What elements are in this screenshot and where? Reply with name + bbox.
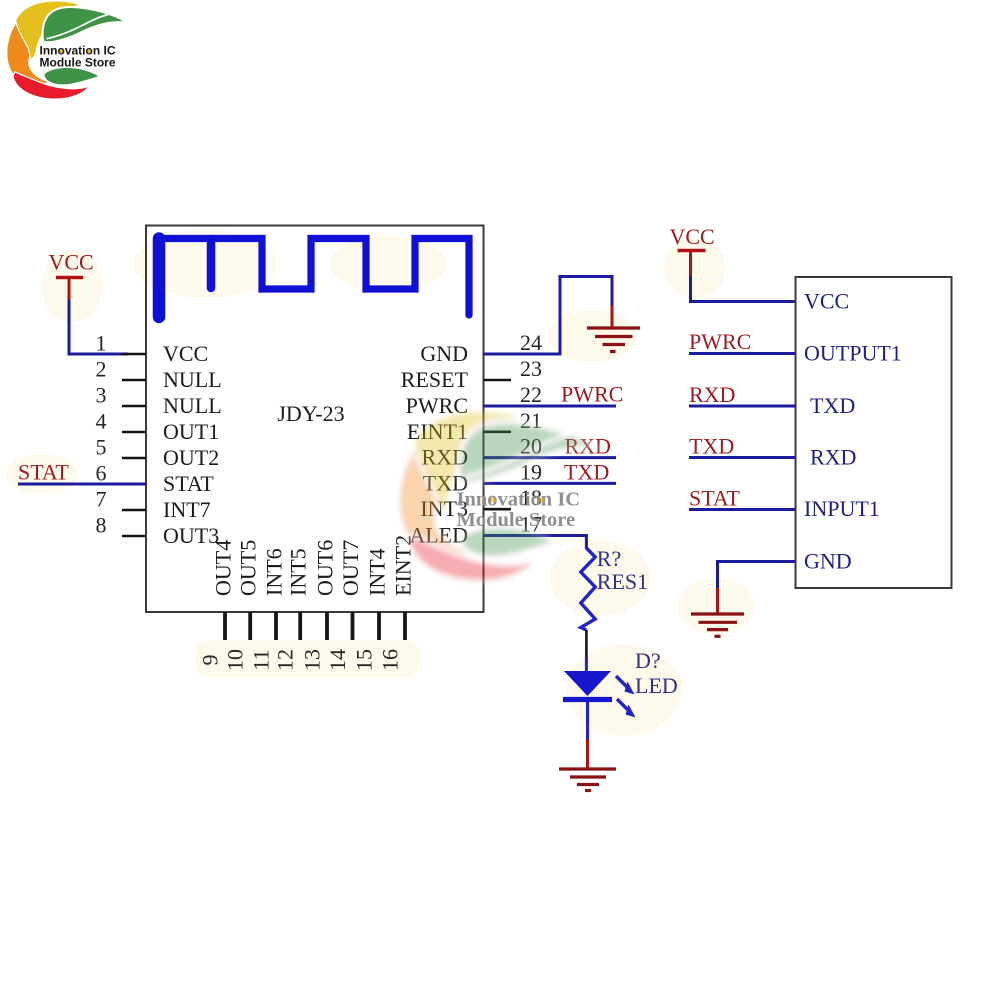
- svg-text:OUT4: OUT4: [211, 540, 236, 596]
- svg-text:TXD: TXD: [810, 393, 855, 418]
- wire pin 17 to resistor: [484, 536, 587, 550]
- svg-text:STAT: STAT: [18, 460, 69, 485]
- LED arrow 1: [616, 676, 635, 695]
- pin 10 OUT5: [223, 540, 261, 671]
- pin 2 NULL: [96, 357, 222, 393]
- svg-text:RXD: RXD: [689, 382, 735, 407]
- antenna (blue meander) main trace: [159, 239, 469, 316]
- pin 13 OUT6: [300, 540, 338, 671]
- wire PWRC to OUTPUT1: [689, 352, 796, 355]
- svg-text:VCC: VCC: [49, 250, 94, 275]
- wire VCC to U2 VCC: [691, 276, 796, 302]
- wire pin 22 PWRC: [484, 405, 617, 408]
- svg-text:NULL: NULL: [163, 393, 222, 418]
- antenna (blue meander) feed bar: [153, 239, 166, 318]
- svg-text:INT7: INT7: [163, 497, 211, 522]
- pin 14 OUT7: [325, 540, 363, 671]
- svg-text:RESET: RESET: [401, 367, 469, 392]
- svg-text:JDY-23: JDY-23: [277, 401, 344, 426]
- pin 16 EINT2: [378, 535, 416, 671]
- connector U2 body: [796, 277, 952, 588]
- svg-text:RXD: RXD: [810, 445, 856, 470]
- wire resistor to LED: [585, 630, 588, 659]
- svg-text:24: 24: [520, 330, 542, 355]
- svg-text:2: 2: [96, 357, 107, 382]
- svg-text:1: 1: [96, 331, 107, 356]
- pin 6 STAT: [96, 461, 215, 497]
- svg-text:15: 15: [352, 649, 377, 671]
- wire STAT to INPUT1: [689, 508, 796, 511]
- pin 24 GND: [420, 330, 542, 366]
- pin 4 OUT1: [96, 409, 220, 445]
- wire LED to ground: [586, 702, 589, 740]
- resistor R1 zigzag: [581, 548, 595, 630]
- svg-text:OUTPUT1: OUTPUT1: [804, 341, 902, 366]
- pin 5 OUT2: [96, 435, 220, 471]
- svg-text:TXD: TXD: [564, 459, 609, 484]
- svg-text:VCC: VCC: [163, 341, 208, 366]
- pin 19 TXD: [423, 459, 542, 495]
- svg-text:OUT1: OUT1: [163, 419, 219, 444]
- svg-text:23: 23: [520, 356, 542, 381]
- wire STAT to pin 6: [18, 483, 146, 486]
- pin 3 NULL: [96, 383, 222, 419]
- pin 1 VCC: [96, 331, 209, 367]
- pin 9 OUT4: [198, 540, 236, 666]
- svg-text:Module Store: Module Store: [457, 509, 576, 531]
- svg-text:OUT5: OUT5: [236, 540, 261, 596]
- pin 22 PWRC: [406, 382, 542, 418]
- LED arrow 2: [617, 699, 636, 718]
- svg-text:9: 9: [198, 655, 223, 666]
- svg-text:D?: D?: [635, 648, 661, 673]
- watermark logo (center, translucent): [398, 412, 598, 582]
- svg-text:14: 14: [325, 649, 350, 671]
- svg-text:RES1: RES1: [597, 569, 648, 594]
- wire U2 GND to ground: [718, 562, 796, 590]
- svg-text:TXD: TXD: [689, 433, 734, 458]
- svg-text:12: 12: [273, 649, 298, 671]
- svg-text:INT5: INT5: [286, 548, 311, 596]
- pin 11 INT6: [249, 548, 287, 670]
- svg-text:4: 4: [96, 409, 107, 434]
- pin 18 INT3: [420, 485, 542, 521]
- svg-text:VCC: VCC: [804, 289, 849, 314]
- svg-text:STAT: STAT: [163, 471, 214, 496]
- LED cathode bar: [563, 697, 612, 702]
- svg-text:OUT6: OUT6: [313, 540, 338, 596]
- svg-text:16: 16: [378, 649, 403, 671]
- wire RXD to TXD: [689, 405, 796, 408]
- pin 17 ALED: [409, 512, 542, 548]
- IC U1 JDY-23 body: [146, 226, 484, 613]
- pin 15 INT4: [352, 548, 390, 671]
- pin 23 RESET: [401, 356, 542, 392]
- svg-text:LED: LED: [635, 673, 678, 698]
- svg-text:22: 22: [520, 382, 542, 407]
- pin 8 OUT3: [96, 513, 220, 549]
- pin 7 INT7: [96, 487, 211, 523]
- svg-text:INT4: INT4: [365, 548, 390, 596]
- ground symbol (top): [587, 328, 640, 352]
- svg-text:7: 7: [96, 487, 107, 512]
- LED D1 triangle: [564, 671, 611, 696]
- svg-text:R?: R?: [597, 546, 621, 571]
- pin 21 EINT1: [407, 408, 542, 444]
- svg-text:STAT: STAT: [689, 485, 740, 510]
- wire pin 20 RXD: [484, 456, 617, 459]
- svg-text:OUT2: OUT2: [163, 445, 219, 470]
- VCC power symbol (left): [49, 250, 94, 302]
- svg-text:GND: GND: [420, 341, 468, 366]
- svg-text:10: 10: [223, 649, 248, 671]
- svg-text:INT6: INT6: [262, 548, 287, 596]
- ground symbol (right block): [691, 614, 744, 636]
- wire VCC to pin 1: [69, 300, 128, 354]
- svg-text:GND: GND: [804, 549, 852, 574]
- svg-text:13: 13: [300, 649, 325, 671]
- svg-text:PWRC: PWRC: [561, 382, 623, 407]
- svg-text:11: 11: [249, 649, 274, 670]
- svg-text:OUT7: OUT7: [338, 540, 363, 596]
- svg-text:NULL: NULL: [163, 367, 222, 392]
- pin 12 INT5: [273, 548, 311, 671]
- watermark o dots: [491, 497, 545, 503]
- svg-text:INPUT1: INPUT1: [804, 496, 880, 521]
- svg-text:6: 6: [96, 461, 107, 486]
- svg-text:PWRC: PWRC: [689, 329, 751, 354]
- VCC power symbol (right): [670, 224, 715, 277]
- svg-text:8: 8: [96, 513, 107, 538]
- wire TXD to RXD: [689, 456, 796, 459]
- watermark text: [457, 489, 581, 532]
- svg-text:VCC: VCC: [670, 224, 715, 249]
- svg-text:5: 5: [96, 435, 107, 460]
- wire pin 19 TXD: [484, 482, 617, 485]
- svg-text:Innovation IC: Innovation IC: [457, 489, 581, 511]
- ground symbol (LED): [559, 769, 616, 791]
- pin 20 RXD: [422, 434, 542, 470]
- faint background tint washes: [6, 230, 754, 736]
- antenna stub: [207, 239, 216, 288]
- svg-text:3: 3: [96, 383, 107, 408]
- wire pin 24 to ground: [484, 277, 613, 355]
- red wire segment to ground (top): [611, 305, 614, 327]
- logo: Innovation IC Module Store (top-left): [7, 2, 126, 100]
